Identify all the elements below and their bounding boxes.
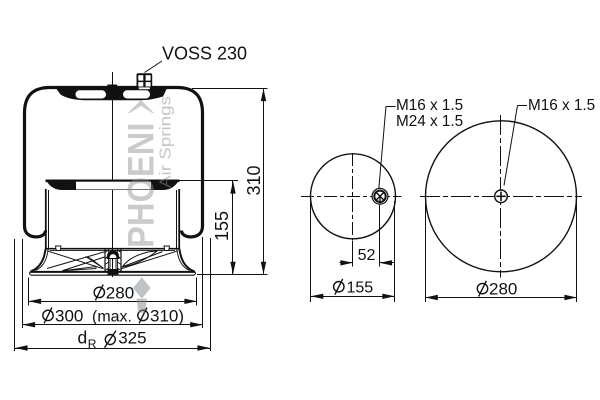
- extension line bottom (310/155): [197, 274, 268, 276]
- extension line 52 bolt: [379, 205, 381, 267]
- crosshair vertical (big circle): [500, 115, 502, 278]
- dimension D155: [311, 296, 395, 298]
- svg-text:155: 155: [212, 211, 232, 241]
- piston top rim: [46, 180, 180, 183]
- centering nub on plate: [107, 85, 119, 89]
- center hole symbol: [495, 190, 508, 203]
- skirt tab right: [164, 246, 170, 251]
- piston right wall: [178, 189, 180, 249]
- cone leaf right: [123, 251, 158, 267]
- centerline of air spring: [112, 72, 114, 277]
- leader M16/M24: [379, 106, 386, 189]
- extension line D300 left: [22, 239, 24, 328]
- svg-text:M24 x 1.5: M24 x 1.5: [396, 113, 463, 130]
- svg-text:d: d: [78, 328, 88, 348]
- svg-text:M16 x 1.5: M16 x 1.5: [528, 97, 595, 114]
- top plate left oval slot: [76, 90, 107, 98]
- VOSS 230 leader line: [145, 61, 163, 73]
- watermark chevron (stylized X): [128, 100, 154, 113]
- crosshair horizontal (big circle): [420, 196, 582, 198]
- extension line dR left: [14, 239, 16, 351]
- piston skirt left: [31, 249, 46, 272]
- dimension 155 vertical: [232, 181, 234, 274]
- cone leaf left: [62, 257, 104, 271]
- svg-text:(max.: (max.: [92, 308, 132, 325]
- bolt symbol on small circle: [372, 188, 388, 204]
- VOSS 230 air fitting: [137, 73, 153, 90]
- extension line D300 right: [202, 237, 204, 328]
- svg-text:280: 280: [106, 283, 134, 302]
- big circle outline: [426, 121, 577, 272]
- extension line mid (155 top): [175, 180, 238, 182]
- bottom plate: [30, 271, 195, 273]
- extension line 52 center: [352, 241, 354, 267]
- small circle outline: [311, 154, 396, 239]
- svg-text:R: R: [88, 337, 97, 351]
- extension line D280 right (big): [576, 201, 578, 302]
- dimension D300 max D310: [23, 324, 203, 326]
- cone spokes right: [121, 252, 163, 268]
- piston bead band: [48, 180, 178, 190]
- dimension 310 vertical: [263, 88, 265, 274]
- svg-text:325: 325: [118, 329, 146, 348]
- svg-text:PHOENI: PHOENI: [120, 122, 162, 248]
- bellows outer contour: [25, 88, 203, 237]
- extension line D155 left: [310, 201, 312, 302]
- leader M16 big circle: [504, 106, 518, 186]
- dimension D280 (big circle): [425, 297, 577, 299]
- center bolt end nut: [108, 269, 119, 275]
- extension line dR right: [210, 238, 212, 351]
- piston left wall: [45, 189, 47, 249]
- skirt tab left: [56, 246, 62, 251]
- svg-text:300: 300: [55, 306, 83, 325]
- extension line D280 left (big): [425, 201, 427, 302]
- svg-text:155: 155: [347, 280, 374, 297]
- top plate right oval slot: [123, 90, 150, 98]
- dimension 52: [340, 262, 354, 264]
- svg-text:52: 52: [358, 247, 376, 264]
- extension line D280 left: [28, 278, 30, 306]
- svg-text:M16 x 1.5: M16 x 1.5: [396, 97, 463, 114]
- center bolt shank: [109, 258, 111, 269]
- extension line D280 right: [196, 278, 198, 306]
- piston skirt right: [179, 249, 194, 272]
- svg-text:310): 310): [150, 306, 184, 325]
- svg-text:VOSS 230: VOSS 230: [162, 44, 247, 64]
- extension line D155 right: [394, 201, 396, 302]
- top bead plate dark band: [56, 88, 167, 100]
- dimension dR D325: [15, 348, 210, 350]
- piston band white window: [76, 182, 151, 190]
- center bolt housing: [105, 249, 121, 272]
- watermark diamond arrow: [133, 277, 151, 298]
- dimension D280 bottom: [29, 301, 198, 303]
- svg-text:Air Springs: Air Springs: [158, 96, 175, 188]
- center bolt dome head: [107, 250, 119, 258]
- svg-text:310: 310: [244, 165, 264, 195]
- svg-text:280: 280: [489, 280, 517, 299]
- cone spokes left: [47, 251, 104, 269]
- extension line top (310): [192, 88, 268, 90]
- crosshair vertical (small circle): [352, 153, 354, 240]
- crosshair horizontal (small circle): [301, 196, 402, 198]
- piston bottom line: [46, 248, 180, 250]
